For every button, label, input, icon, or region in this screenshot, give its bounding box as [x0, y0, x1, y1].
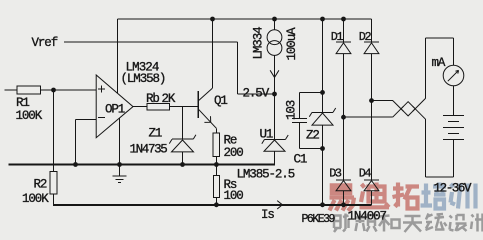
svg-text:U1: U1 [260, 128, 273, 142]
node: top rail / D1 [341, 17, 346, 22]
watermark gray char she2 [450, 215, 467, 231]
svg-text:100K: 100K [16, 109, 43, 123]
ground symbol stub [119, 165, 121, 176]
resistor R1 [17, 86, 41, 94]
svg-text:2K: 2K [162, 92, 176, 106]
wire: op-amp - input stub [76, 118, 97, 120]
LM334 output arrow [270, 70, 279, 77]
diode D4 cathode bar [364, 179, 379, 181]
zener Z2 bar ticks [309, 108, 335, 117]
svg-text:D4: D4 [359, 166, 372, 180]
watermark gray char xian [426, 214, 447, 231]
wire: D4 anode to Is rail end [371, 191, 373, 205]
diode D2 cathode bar [364, 41, 379, 43]
watermark gray char she [334, 214, 349, 233]
wire: 2.5V node down to U1 [274, 94, 276, 139]
wire: op-amp V- pin to gnd rail [119, 118, 121, 165]
wire: U1 anode to gnd rail end [274, 151, 276, 165]
voltage reference U1 cathode bar [265, 138, 286, 140]
node: AC2 tap on D2-D4 line [369, 98, 374, 103]
diode D3 cathode bar [336, 179, 351, 181]
circuit straight wires [5, 19, 465, 206]
diode D1 cathode bar [336, 41, 351, 43]
zener Z1 triangle [172, 140, 194, 152]
capacitor C1 top plate [292, 118, 307, 120]
wire: Z2 anode down to Is rail [322, 125, 324, 205]
wire: Rb to Q1 base, node B [169, 106, 198, 108]
battery plate short 2 [448, 133, 459, 135]
zener Z1 cathode bar [172, 138, 193, 140]
watermark gray char tian [403, 216, 422, 232]
wire: battery bottom [453, 140, 455, 178]
top rail [118, 18, 372, 20]
op-amp U2 LM324 triangle [96, 75, 133, 138]
resistor Rb [147, 103, 169, 110]
svg-text:200: 200 [224, 146, 244, 160]
diode D4 triangle [364, 181, 379, 191]
svg-text:R1: R1 [16, 96, 29, 110]
wire: Z1 anode to gnd rail [182, 152, 184, 165]
connector crossing diagonal upper-left [393, 101, 404, 112]
node: gnd rail / feedback [73, 162, 78, 167]
resistor Rs [214, 175, 220, 197]
wire: node AC1 tap to connector [344, 116, 393, 118]
node: top rail / Q1 collector [210, 17, 215, 22]
ground symbol bar 1 [113, 175, 127, 177]
watermark char xun [451, 184, 476, 209]
meter needle arrow [448, 70, 459, 81]
voltage reference U1 triangle [264, 140, 285, 151]
node: gnd rail / ground symbol [117, 162, 122, 167]
wire: connector upper right vertical [425, 38, 427, 98]
wire: meter to battery [453, 86, 455, 116]
wire: D1 anode to D3 cathode, node AC1 [343, 54, 345, 180]
svg-text:100: 100 [224, 189, 244, 203]
node: top rail / Z2 line [320, 17, 325, 22]
svg-text:LM385-2.5: LM385-2.5 [237, 168, 295, 182]
wire: top rail to D1 [343, 19, 345, 42]
wire: node A down to R2 [53, 90, 55, 172]
wire: C1 bottom horizontal to Z2 line [300, 148, 323, 150]
voltage reference U1 bar ticks [262, 135, 288, 144]
Is bottom rail (bold) [53, 204, 372, 206]
svg-text:D3: D3 [329, 166, 342, 180]
svg-text:D1: D1 [331, 30, 344, 44]
wire: Vref horizontal [64, 41, 238, 43]
connector diamond [401, 102, 415, 116]
watermark char pei [421, 183, 447, 209]
svg-text:1N4735: 1N4735 [130, 143, 168, 157]
wire: top rail right end down to D2 [371, 19, 373, 42]
node: Is rail / Z2 anode [320, 202, 325, 207]
svg-text:R2: R2 [34, 178, 47, 192]
diode D1 triangle [336, 43, 351, 54]
svg-text:mA: mA [432, 56, 446, 70]
battery plate long 3 [443, 139, 464, 141]
resistor Re [213, 133, 220, 157]
current source LM334 circle 2 [267, 41, 282, 56]
diode D3 triangle [336, 181, 351, 191]
node: R1/R2 divider to + input [51, 88, 56, 93]
wire: C1 top vertical [299, 92, 301, 118]
node: top rail / LM334 [272, 17, 277, 22]
current source LM334 circle 1 [267, 30, 282, 45]
battery plate long 2 [443, 127, 464, 129]
wire: op-amp output to Rb [133, 106, 147, 108]
wire: Vref vertical down [237, 42, 239, 94]
ground rail (bold) [9, 164, 275, 166]
wire: R2 bottom to bottom rail [53, 194, 55, 206]
wire: connector lower right vertical [425, 119, 427, 177]
wire: - input feedback down to gnd rail [75, 119, 77, 164]
svg-text:Vref: Vref [32, 36, 58, 50]
wire: D3 anode to Is rail [343, 191, 345, 205]
wire: Rs top from gnd rail [215, 165, 217, 176]
svg-text:OP1: OP1 [105, 103, 125, 117]
ground symbol bar 3 [118, 181, 121, 183]
watermark gray char pin [356, 214, 377, 232]
svg-text:D2: D2 [359, 30, 372, 44]
op-amp - input sign [98, 117, 105, 119]
wire: node B down to Z1 [182, 107, 184, 140]
node: AC1 tap on D1-D3 line [341, 115, 346, 120]
wire: LM334 to 2.5V node [274, 55, 276, 94]
svg-text:Is: Is [261, 208, 274, 222]
connector crossing diagonal lower-left [393, 106, 404, 117]
wire: Q1 emitter vertical to Re [215, 128, 217, 133]
wire: loop top horizontal [426, 37, 454, 39]
svg-text:LM334: LM334 [252, 27, 266, 60]
wire: R1 to op-amp + input, node A [41, 89, 97, 91]
node: C1 top / Z2 line [320, 90, 325, 95]
resistor R2 [50, 172, 57, 195]
watermark layer [330, 183, 483, 233]
watermark char yi [330, 185, 355, 211]
wire: Q1 collector vertical to top rail [212, 19, 214, 88]
node: gnd rail / Re-Rs junction [214, 162, 219, 167]
battery plate short 1 [448, 121, 459, 123]
wire: top rail down to Z2 [322, 19, 324, 112]
zener Z2 cathode bar [312, 111, 333, 113]
svg-text:100K: 100K [22, 192, 49, 206]
svg-text:C1: C1 [294, 153, 307, 167]
node: Is rail / D3 anode [341, 202, 346, 207]
node: 2.5V reference node [272, 92, 277, 97]
watermark gray char he [379, 213, 400, 232]
wire: D2 anode to D4 cathode, node AC2 [371, 54, 373, 180]
meter mA circle [443, 65, 464, 86]
transistor Q1 emitter diagonal [198, 109, 216, 128]
svg-text:2.5V: 2.5V [243, 87, 270, 101]
svg-text:P6KE39: P6KE39 [302, 213, 336, 226]
svg-text:(LM358): (LM358) [121, 72, 166, 86]
Is arrow on bottom rail [277, 201, 282, 209]
wire: top rail to LM334 [274, 19, 276, 30]
wire: down to meter mA [453, 38, 455, 65]
svg-text:103: 103 [285, 100, 299, 120]
wire: input line to R1 [5, 89, 18, 91]
node: C1 bottom / Z2 line [320, 146, 325, 151]
transistor Q1 collector diagonal [198, 88, 212, 101]
wire: Vref to 2.5V node [238, 93, 275, 95]
svg-text:12-36V: 12-36V [434, 182, 473, 196]
diode D2 triangle [364, 43, 379, 54]
svg-text:Q1: Q1 [214, 94, 227, 108]
wire: node AC2 tap to connector [372, 100, 393, 102]
transistor Q1 emitter arrow [204, 116, 210, 122]
svg-text:Rb: Rb [146, 92, 159, 106]
watermark char tuo [393, 183, 420, 209]
svg-text:1N4007: 1N4007 [348, 210, 387, 224]
ground symbol bar 2 [116, 178, 124, 180]
node: gnd rail / Z1 anode [180, 162, 185, 167]
wire: loop bottom horizontal [426, 176, 454, 178]
svg-text:100uA: 100uA [285, 27, 299, 61]
watermark gray char ji partial [471, 214, 483, 232]
wire: Rs bottom to Is rail [215, 198, 217, 205]
battery plate long 1 [443, 115, 464, 117]
connector crossing diagonal lower-right [413, 106, 426, 119]
capacitor C1 bottom plate [292, 121, 307, 123]
wire: C1 bottom vertical [299, 122, 301, 148]
connector crossing diagonal upper-right [413, 98, 426, 111]
watermark char di [360, 183, 390, 208]
wire: C1 top horizontal to Z2 line [300, 91, 323, 93]
op-amp + input sign [98, 85, 105, 92]
zener Z1 bar ticks [169, 135, 196, 144]
svg-text:Z2: Z2 [306, 129, 319, 143]
wire: top rail left end down to op-amp V+ [117, 19, 119, 93]
svg-text:Z1: Z1 [149, 127, 162, 141]
node: Is rail / Rs bottom [214, 202, 219, 207]
transistor Q1 base bar [197, 91, 199, 118]
wire: Re bottom to gnd rail [215, 156, 217, 164]
zener Z2 triangle [312, 113, 333, 125]
circuit diagonal / curved parts [96, 30, 464, 209]
